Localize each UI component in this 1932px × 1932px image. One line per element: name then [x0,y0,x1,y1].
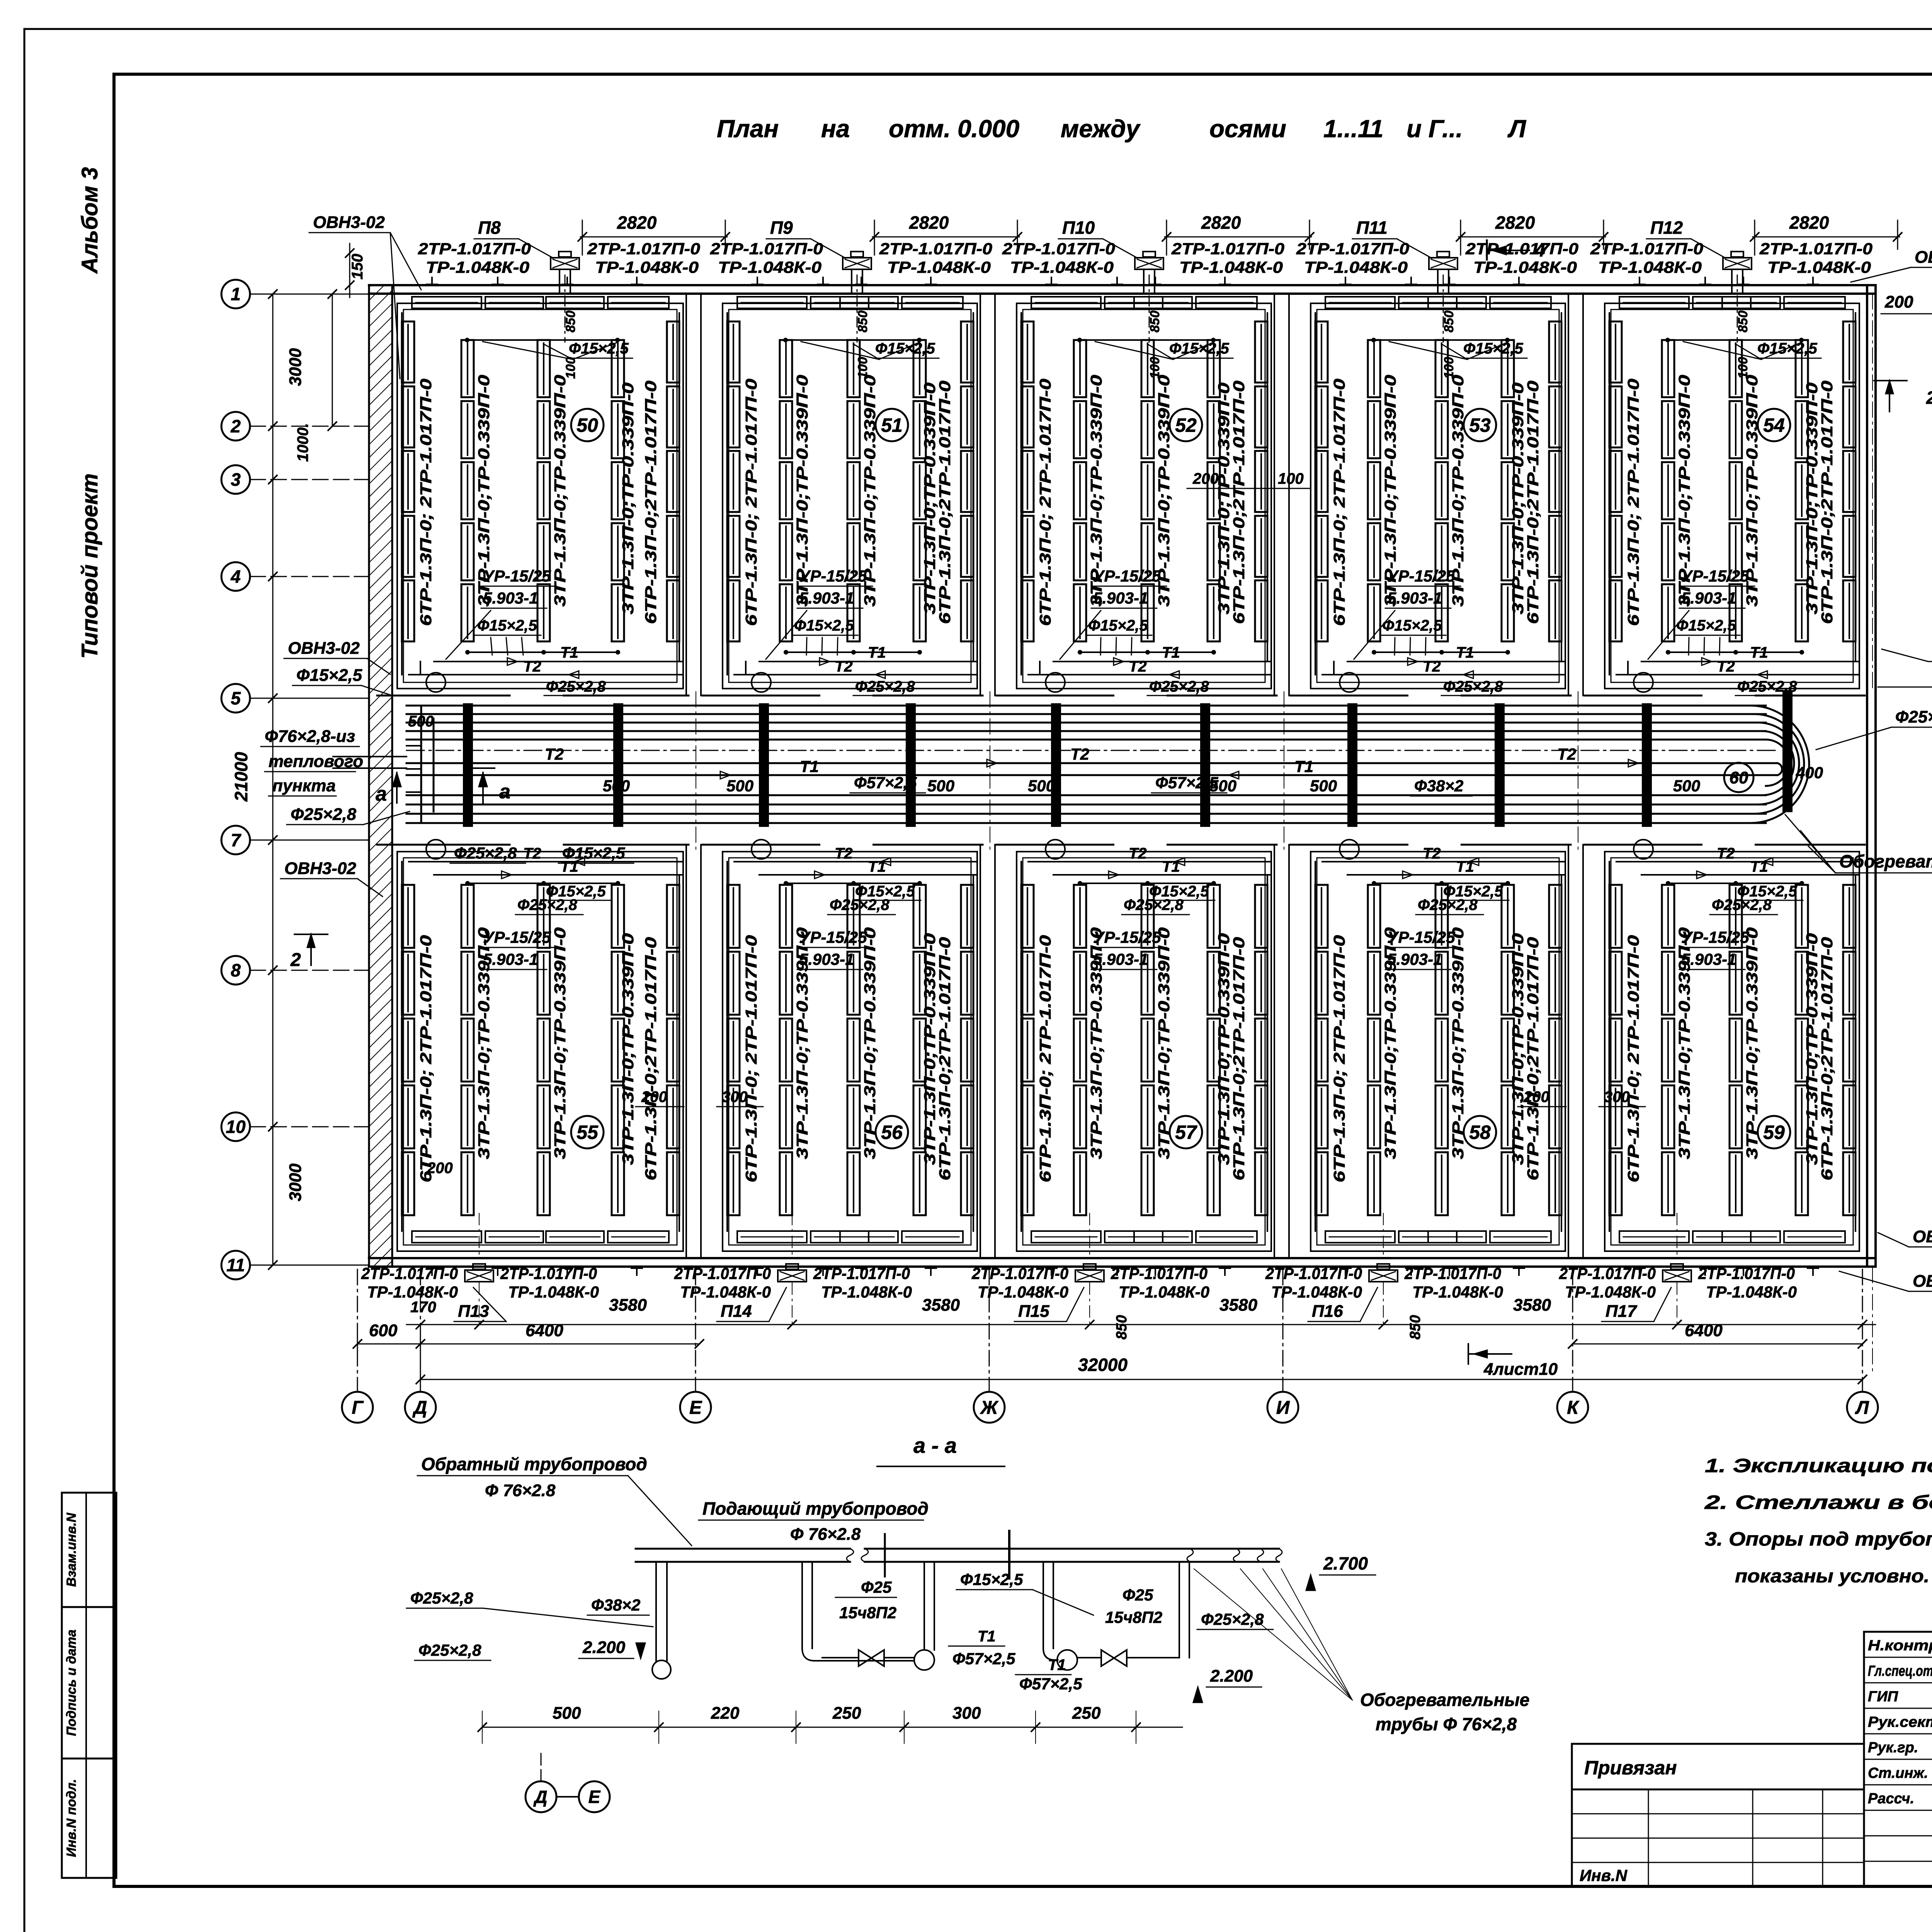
svg-text:Т1: Т1 [1162,858,1180,875]
section mark 4 (top) [1486,240,1488,260]
svg-text:6ТР-1.3П-0;2ТР-1.017П-0: 6ТР-1.3П-0;2ТР-1.017П-0 [936,381,954,624]
room 56 (bottom row) [723,852,977,1251]
svg-text:УР-15/25: УР-15/25 [1093,567,1161,585]
axis 4 [221,562,250,591]
svg-text:220: 220 [711,1704,740,1723]
svg-text:Т2: Т2 [1129,658,1147,675]
svg-text:500: 500 [927,777,954,795]
room 52 (top row) [1017,303,1271,689]
svg-text:3000: 3000 [286,1163,305,1201]
svg-text:УР-15/25: УР-15/25 [1093,928,1161,946]
svg-text:Ф25×2,8: Ф25×2,8 [546,678,606,695]
svg-text:6ТР-1.3П-0; 2ТР-1.017П-0: 6ТР-1.3П-0; 2ТР-1.017П-0 [1036,379,1054,626]
svg-text:Т1: Т1 [1048,1656,1066,1673]
svg-text:Ф15×2,5: Ф15×2,5 [546,883,606,900]
svg-text:2. Стеллажи в боксах условн: 2. Стеллажи в боксах условно не показаны… [1704,1492,1932,1513]
svg-text:ОВН3-02: ОВН3-02 [1915,248,1932,267]
interior partitions [685,294,687,696]
svg-text:250: 250 [832,1704,861,1723]
bottom dim row small ticks [406,1324,1876,1325]
building left exterior wall (hatched) [369,285,392,1267]
svg-text:Ф15×2,5: Ф15×2,5 [296,666,362,685]
svg-text:Т2: Т2 [1717,658,1735,675]
svg-text:3ТР-1.3П-0;ТР-0.339П-0: 3ТР-1.3П-0;ТР-0.339П-0 [619,933,637,1165]
svg-text:Ф15×2,5: Ф15×2,5 [1443,883,1503,900]
svg-text:Ф25×2,8: Ф25×2,8 [1895,707,1932,726]
svg-text:ТР-1.048К-0: ТР-1.048К-0 [680,1283,771,1301]
svg-text:6ТР-1.3П-0;2ТР-1.017П-0: 6ТР-1.3П-0;2ТР-1.017П-0 [936,937,954,1180]
svg-text:2: 2 [230,416,241,436]
svg-text:показаны условно. Привязки: показаны условно. Привязки и тип опоры с… [1735,1566,1932,1587]
svg-text:П14: П14 [721,1302,752,1321]
svg-text:3580: 3580 [922,1296,960,1315]
svg-text:5.903-1: 5.903-1 [1093,950,1148,968]
svg-text:2ТР-1.017П-0: 2ТР-1.017П-0 [1265,1264,1362,1282]
svg-text:6ТР-1.3П-0; 2ТР-1.017П-0: 6ТР-1.3П-0; 2ТР-1.017П-0 [742,935,760,1182]
svg-text:850: 850 [563,311,578,333]
svg-text:21000: 21000 [231,752,251,802]
svg-text:5.903-1: 5.903-1 [799,589,854,607]
svg-text:осями: осями [1209,115,1286,143]
svg-text:100: 100 [1148,357,1162,379]
svg-text:Ф15×2,5: Ф15×2,5 [855,883,915,900]
svg-text:2ТР-1.017П-0: 2ТР-1.017П-0 [1002,240,1115,258]
svg-text:Рассч.: Рассч. [1868,1791,1914,1807]
svg-text:5.903-1: 5.903-1 [483,950,538,968]
svg-text:Т2: Т2 [835,658,853,675]
svg-text:П8: П8 [478,218,501,238]
svg-text:2 лист10: 2 лист10 [1926,388,1932,408]
svg-text:2.200: 2.200 [1210,1667,1253,1685]
svg-text:6ТР-1.3П-0; 2ТР-1.017П-0: 6ТР-1.3П-0; 2ТР-1.017П-0 [1330,935,1348,1182]
svg-text:3000: 3000 [286,348,305,386]
svg-text:3ТР-1.3П-0;ТР-0.339П-0: 3ТР-1.3П-0;ТР-0.339П-0 [619,383,637,614]
svg-text:55: 55 [577,1122,599,1143]
svg-text:Подающий трубопровод: Подающий трубопровод [702,1498,929,1519]
svg-text:Т1: Т1 [1750,858,1768,875]
svg-text:П15: П15 [1018,1302,1049,1321]
svg-text:УР-15/25: УР-15/25 [483,567,551,585]
svg-text:пункта: пункта [272,776,336,795]
svg-text:на: на [821,115,850,143]
svg-text:УР-15/25: УР-15/25 [1387,928,1455,946]
svg-text:6ТР-1.3П-0; 2ТР-1.017П-0: 6ТР-1.3П-0; 2ТР-1.017П-0 [417,379,435,626]
svg-text:Ф15×2,5: Ф15×2,5 [1088,617,1148,634]
axis 3 [221,465,250,494]
svg-text:Ф25×2,8: Ф25×2,8 [454,844,517,862]
svg-text:5.903-1: 5.903-1 [1093,589,1148,607]
svg-text:ТР-1.048К-0: ТР-1.048К-0 [426,258,529,276]
section mark 2 (left) [310,934,312,965]
svg-text:Т2: Т2 [523,845,541,862]
bottom dim 600/6400 row [357,1344,699,1345]
svg-text:Т1: Т1 [978,1628,996,1645]
title block: signature table [1864,1632,1932,1886]
corridor walls [377,695,510,697]
title block: privyazan table [1572,1744,1864,1789]
svg-text:300: 300 [952,1704,981,1723]
4 лист10 bottom mark [1468,1344,1469,1364]
svg-text:2ТР-1.017П-0: 2ТР-1.017П-0 [1590,240,1703,258]
svg-text:П11: П11 [1356,218,1388,238]
svg-text:Ж: Ж [980,1398,999,1418]
svg-text:57: 57 [1175,1122,1197,1143]
svg-text:100: 100 [1278,470,1304,487]
svg-text:600: 600 [369,1321,398,1340]
room 50 (top row) [397,303,683,689]
svg-text:6ТР-1.3П-0;2ТР-1.017П-0: 6ТР-1.3П-0;2ТР-1.017П-0 [1818,381,1836,624]
axis 5 [221,684,250,713]
svg-text:500: 500 [553,1704,581,1723]
svg-text:1...11: 1...11 [1323,115,1383,143]
svg-text:ТР-1.048К-0: ТР-1.048К-0 [367,1283,458,1301]
svg-text:4: 4 [230,566,241,587]
axis 1 [221,280,250,308]
svg-text:200: 200 [641,1088,667,1105]
axis Д [405,1392,436,1423]
svg-text:трубы Ф 76×2,8: трубы Ф 76×2,8 [1376,1714,1517,1734]
svg-text:Обратный трубопровод: Обратный трубопровод [421,1454,647,1474]
svg-text:отм. 0.000: отм. 0.000 [889,115,1019,143]
svg-text:3ТР-1.3П-0;ТР-0.339П-0: 3ТР-1.3П-0;ТР-0.339П-0 [551,927,569,1159]
svg-text:Ф25×2,8: Ф25×2,8 [1443,678,1503,695]
svg-text:52: 52 [1175,415,1197,436]
corridor pipe runs [406,705,1766,707]
svg-text:Ф15×2,5: Ф15×2,5 [562,844,625,862]
svg-text:200: 200 [427,1160,453,1177]
section loop 2 [1043,1562,1044,1648]
svg-text:Т2: Т2 [1070,745,1089,763]
svg-text:Т2: Т2 [1423,845,1441,862]
svg-text:5.903-1: 5.903-1 [1387,589,1442,607]
bottom dim 32000 row [420,1379,1862,1380]
svg-text:53: 53 [1469,415,1491,436]
supply unit П10 [1135,258,1163,269]
svg-text:Т1: Т1 [800,757,819,776]
svg-text:Ф38×2: Ф38×2 [1414,777,1463,795]
svg-text:Ф15×2,5: Ф15×2,5 [794,617,854,634]
svg-text:ТР-1.048К-0: ТР-1.048К-0 [718,258,821,276]
svg-text:850: 850 [855,311,870,333]
svg-text:2ТР-1.017П-0: 2ТР-1.017П-0 [1171,240,1284,258]
axis Г [342,1392,373,1423]
svg-text:Обогревательные трубы: Обогревательные трубы [1839,851,1932,871]
axis 11 [221,1251,250,1279]
svg-text:5.903-1: 5.903-1 [1681,589,1736,607]
svg-text:Обогревательные: Обогревательные [1360,1690,1529,1710]
svg-text:54: 54 [1763,415,1785,436]
svg-text:500: 500 [726,777,753,795]
svg-text:Рук.сект.: Рук.сект. [1868,1714,1932,1730]
svg-text:6ТР-1.3П-0;2ТР-1.017П-0: 6ТР-1.3П-0;2ТР-1.017П-0 [1818,937,1836,1180]
svg-text:Инв.N: Инв.N [1580,1866,1628,1884]
svg-text:Д: Д [412,1398,427,1418]
pipe hairpin u-turns [1750,706,1809,823]
svg-text:ТР-1.048К-0: ТР-1.048К-0 [1304,258,1408,276]
svg-text:2ТР-1.017П-0: 2ТР-1.017П-0 [1296,240,1409,258]
svg-text:1. Экспликацию помещений см. л: 1. Экспликацию помещений см. лист 6 [1705,1455,1932,1476]
svg-text:250: 250 [1072,1704,1101,1723]
svg-text:Ф15×2,5: Ф15×2,5 [960,1570,1023,1588]
svg-text:10: 10 [226,1117,246,1137]
svg-text:Альбом 3: Альбом 3 [77,167,102,274]
svg-text:500: 500 [1673,777,1700,795]
svg-text:Ф25×2,8: Ф25×2,8 [418,1641,481,1659]
svg-text:ТР-1.048К-0: ТР-1.048К-0 [978,1283,1068,1301]
svg-text:Привязан: Привязан [1584,1757,1677,1779]
svg-text:6ТР-1.3П-0;2ТР-1.017П-0: 6ТР-1.3П-0;2ТР-1.017П-0 [1230,937,1248,1180]
left margin stamp boxes [62,1493,116,1878]
axis circles Д-Е below section [526,1781,556,1812]
svg-text:УР-15/25: УР-15/25 [1681,928,1749,946]
svg-text:3580: 3580 [1513,1296,1551,1315]
svg-text:П12: П12 [1650,218,1683,238]
svg-text:3. Опоры под трубопроводы в: 3. Опоры под трубопроводы в коридорах в … [1705,1528,1932,1550]
svg-text:100: 100 [855,357,870,379]
svg-text:170: 170 [410,1299,436,1316]
building right exterior wall [1866,285,1868,1267]
pipe supports (black bars) [463,703,473,827]
svg-text:2ТР-1.017П-0: 2ТР-1.017П-0 [1698,1264,1795,1282]
svg-text:Н.контр.: Н.контр. [1868,1638,1932,1654]
svg-text:2ТР-1.017П-0: 2ТР-1.017П-0 [971,1264,1068,1282]
svg-text:ОВН3-02: ОВН3-02 [313,213,385,232]
svg-text:100: 100 [1442,357,1456,379]
axis Л [1847,1392,1878,1423]
svg-text:100: 100 [1736,357,1750,379]
svg-text:6ТР-1.3П-0; 2ТР-1.017П-0: 6ТР-1.3П-0; 2ТР-1.017П-0 [1036,935,1054,1182]
svg-text:1000.: 1000. [294,423,311,462]
svg-text:Ф25×2,8: Ф25×2,8 [291,805,357,824]
svg-text:П13: П13 [458,1302,489,1321]
svg-text:Ф25×2,8: Ф25×2,8 [855,678,915,695]
supply unit П17 [1663,1270,1691,1282]
svg-text:ТР-1.048К-0: ТР-1.048К-0 [1706,1283,1797,1301]
module axis dash-dot verticals in corridor [696,692,696,854]
svg-text:3580: 3580 [1219,1296,1257,1315]
svg-text:Г: Г [352,1398,364,1418]
svg-text:Д: Д [533,1787,547,1807]
svg-text:Ф25×2,8: Ф25×2,8 [1149,678,1209,695]
svg-text:6ТР-1.3П-0;2ТР-1.017П-0: 6ТР-1.3П-0;2ТР-1.017П-0 [1230,381,1248,624]
section main pipe [636,1548,850,1550]
room 57 (bottom row) [1017,852,1271,1251]
svg-text:2ТР-1.017П-0: 2ТР-1.017П-0 [674,1264,771,1282]
svg-text:6ТР-1.3П-0; 2ТР-1.017П-0: 6ТР-1.3П-0; 2ТР-1.017П-0 [417,935,435,1182]
svg-text:ТР-1.048К-0: ТР-1.048К-0 [1119,1283,1209,1301]
svg-text:3ТР-1.3П-0;ТР-0.339П-0: 3ТР-1.3П-0;ТР-0.339П-0 [861,927,879,1159]
svg-text:5.903-1: 5.903-1 [799,950,854,968]
svg-text:4лист10: 4лист10 [1483,1360,1558,1379]
left dimension chain [272,294,274,1265]
svg-text:300: 300 [722,1088,748,1105]
svg-text:ТР-1.048К-0: ТР-1.048К-0 [1473,258,1577,276]
svg-text:Ф15×2,5: Ф15×2,5 [1382,617,1442,634]
svg-text:К: К [1567,1398,1580,1418]
svg-text:Т1: Т1 [1750,644,1768,661]
svg-text:2ТР-1.017П-0: 2ТР-1.017П-0 [418,240,531,258]
svg-text:2ТР-1.017П-0: 2ТР-1.017П-0 [879,240,992,258]
svg-text:ОВН3-02: ОВН3-02 [1913,1272,1932,1291]
svg-text:ТР-1.048К-0: ТР-1.048К-0 [1412,1283,1503,1301]
svg-text:200: 200 [1192,470,1219,487]
building top exterior wall [369,284,1876,286]
svg-text:850: 850 [1148,311,1162,333]
svg-text:Т1: Т1 [868,644,886,661]
svg-text:Инв.N подл.: Инв.N подл. [64,1779,79,1857]
svg-text:5.903-1: 5.903-1 [1387,950,1442,968]
svg-text:150: 150 [349,254,366,280]
svg-text:ТР-1.048К-0: ТР-1.048К-0 [595,258,699,276]
svg-text:58: 58 [1469,1122,1491,1143]
svg-text:2ТР-1.017П-0: 2ТР-1.017П-0 [813,1264,910,1282]
svg-text:Т2: Т2 [523,658,541,675]
axis К [1557,1392,1588,1423]
svg-text:6ТР-1.3П-0; 2ТР-1.017П-0: 6ТР-1.3П-0; 2ТР-1.017П-0 [1624,935,1642,1182]
svg-text:Т2: Т2 [1129,845,1147,862]
svg-text:ОВН3-02: ОВН3-02 [288,639,360,658]
svg-text:2ТР-1.017П-0: 2ТР-1.017П-0 [500,1264,597,1282]
svg-text:3580: 3580 [609,1296,647,1315]
svg-text:6ТР-1.3П-0;2ТР-1.017П-0: 6ТР-1.3П-0;2ТР-1.017П-0 [642,381,660,624]
section dimension row [482,1727,1182,1728]
svg-text:ТР-1.048К-0: ТР-1.048К-0 [887,258,991,276]
svg-text:ТР-1.048К-0: ТР-1.048К-0 [508,1283,599,1301]
room 58 (bottom row) [1311,852,1565,1251]
svg-text:Т1: Т1 [1162,644,1180,661]
svg-text:850: 850 [1114,1315,1130,1339]
svg-text:32000: 32000 [1078,1355,1128,1375]
svg-text:П16: П16 [1312,1302,1343,1321]
section loop 1 [801,1562,803,1648]
svg-text:ТР-1.048К-0: ТР-1.048К-0 [1598,258,1702,276]
svg-text:56: 56 [881,1122,903,1143]
svg-text:Ф25: Ф25 [1122,1586,1153,1604]
svg-text:2: 2 [290,950,301,970]
svg-text:Т2: Т2 [835,845,853,862]
svg-text:Ф76×2,8-из: Ф76×2,8-из [265,727,355,746]
svg-text:2ТР-1.017П-0: 2ТР-1.017П-0 [587,240,700,258]
svg-text:a: a [376,783,387,805]
svg-text:Подпись и дата: Подпись и дата [64,1629,79,1736]
right side zone outline [1878,687,1932,688]
svg-text:Е: Е [689,1398,702,1418]
valve in section loop2 [1101,1650,1127,1666]
svg-text:П9: П9 [770,218,793,238]
svg-text:2ТР-1.017П-0: 2ТР-1.017П-0 [1404,1264,1501,1282]
svg-text:Ф15×2,5: Ф15×2,5 [1676,617,1736,634]
axis Е [680,1392,711,1423]
svg-text:П10: П10 [1062,218,1095,238]
svg-text:Т1: Т1 [868,858,886,875]
svg-text:Т2: Т2 [1423,658,1441,675]
svg-text:2820: 2820 [1789,213,1829,233]
svg-text:850: 850 [1736,311,1750,333]
svg-text:Т2: Т2 [1557,745,1576,763]
supply unit П8 [551,258,579,269]
svg-text:2.700: 2.700 [1323,1553,1368,1573]
svg-text:Ст.инж.: Ст.инж. [1868,1765,1928,1781]
svg-text:11: 11 [226,1255,245,1275]
svg-text:Ф38×2: Ф38×2 [591,1596,640,1614]
supply unit П14 [778,1270,806,1282]
svg-text:8: 8 [231,960,241,980]
right wall axis dash-dot [1872,294,1873,692]
axis Ж [974,1392,1005,1423]
svg-text:Взам.инв.N: Взам.инв.N [64,1512,79,1587]
svg-text:6ТР-1.3П-0; 2ТР-1.017П-0: 6ТР-1.3П-0; 2ТР-1.017П-0 [742,379,760,626]
svg-text:3ТР-1.3П-0;ТР-0.339П-0: 3ТР-1.3П-0;ТР-0.339П-0 [551,375,569,607]
svg-text:между: между [1061,115,1141,143]
axis 7 [221,826,250,854]
svg-text:200: 200 [1884,293,1913,311]
svg-text:Л: Л [1507,115,1527,143]
axis 2 [221,412,250,440]
axis И [1267,1392,1298,1423]
supply unit П16 [1369,1270,1398,1282]
svg-text:П17: П17 [1605,1302,1638,1321]
svg-text:Т1: Т1 [1456,644,1474,661]
svg-text:2820: 2820 [617,213,657,233]
room 55 (bottom row) [397,852,683,1251]
svg-text:2ТР-1.017П-0: 2ТР-1.017П-0 [1465,240,1578,258]
corridor axis dash-dot line [406,750,1777,751]
svg-text:2ТР-1.017П-0: 2ТР-1.017П-0 [710,240,823,258]
svg-text:Гл.спец.отд.: Гл.спец.отд. [1868,1663,1932,1679]
svg-text:15ч8П2: 15ч8П2 [839,1604,896,1622]
svg-text:Типовой проект: Типовой проект [77,473,102,659]
svg-text:Т1: Т1 [560,644,578,661]
svg-text:a - a: a - a [913,1433,957,1458]
heating pipes leader fan [1194,1569,1352,1700]
building bottom exterior wall [369,1257,1876,1259]
svg-text:5.903-1: 5.903-1 [483,589,538,607]
circled 60 [1724,763,1753,792]
room 54 (top row) [1605,303,1859,689]
svg-text:УР-15/25: УР-15/25 [483,928,551,946]
svg-text:Ф 76×2.8: Ф 76×2.8 [790,1525,861,1544]
room 59 (bottom row) [1605,852,1859,1251]
svg-text:2ТР-1.017П-0: 2ТР-1.017П-0 [361,1264,458,1282]
svg-text:ТР-1.048К-0: ТР-1.048К-0 [1010,258,1114,276]
section a cut marks [396,773,398,803]
svg-text:Т1: Т1 [1294,757,1313,776]
svg-text:ТР-1.048К-0: ТР-1.048К-0 [1179,258,1283,276]
svg-text:a: a [499,781,510,803]
svg-text:ОВН3-02: ОВН3-02 [284,859,356,878]
svg-text:2ТР-1.017П-0: 2ТР-1.017П-0 [1759,240,1872,258]
axis 10 [221,1112,250,1141]
svg-text:Т1: Т1 [1456,858,1474,875]
supply unit П13 [465,1270,493,1282]
svg-text:6ТР-1.3П-0; 2ТР-1.017П-0: 6ТР-1.3П-0; 2ТР-1.017П-0 [1330,379,1348,626]
supply unit П11 [1429,258,1458,269]
2 лист 10 mark [1889,381,1890,412]
svg-text:УР-15/25: УР-15/25 [1681,567,1749,585]
svg-text:51: 51 [881,415,903,436]
svg-text:50: 50 [577,415,598,436]
svg-text:6ТР-1.3П-0;2ТР-1.017П-0: 6ТР-1.3П-0;2ТР-1.017П-0 [1524,381,1542,624]
svg-text:Л: Л [1855,1398,1869,1418]
svg-text:500: 500 [1028,777,1055,795]
corridor left manifold [420,707,422,823]
svg-text:59: 59 [1763,1122,1785,1143]
svg-text:ГИП: ГИП [1868,1689,1898,1705]
svg-text:ТР-1.048К-0: ТР-1.048К-0 [821,1283,912,1301]
svg-text:4: 4 [1534,240,1545,261]
svg-text:И: И [1276,1398,1290,1418]
svg-text:и Г...: и Г... [1406,115,1463,143]
